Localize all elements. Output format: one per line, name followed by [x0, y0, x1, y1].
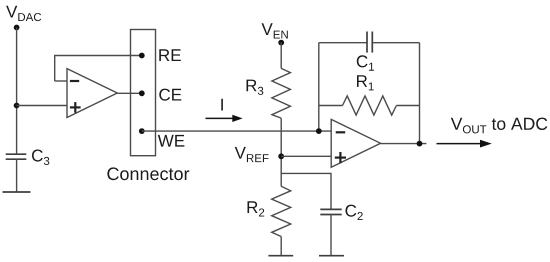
- wire feedback top right of C1: [372, 42, 419, 44]
- junction at op-amp U1 plus input: [14, 103, 20, 109]
- ground (R2): [268, 255, 293, 257]
- connector J1 box: [131, 30, 156, 156]
- wire WE to U2 minus input: [142, 130, 331, 132]
- pin RE label: [159, 49, 181, 61]
- wire U1 output to CE pin: [117, 92, 142, 94]
- wire VEN to R3: [280, 43, 282, 69]
- resistor R1 label: [357, 75, 374, 90]
- node VREF junction dot: [278, 153, 284, 159]
- resistor R2: [272, 186, 291, 236]
- ground (C3): [3, 191, 31, 193]
- wire U2 output: [381, 143, 427, 145]
- wire R2 to ground: [280, 237, 282, 256]
- wire U1 minus input: [55, 80, 67, 82]
- resistor R1: [319, 96, 420, 115]
- resistor R3 label: [247, 80, 264, 95]
- capacitor C2: [320, 209, 341, 214]
- capacitor C3: [6, 154, 27, 159]
- node VEN terminal dot: [278, 40, 284, 46]
- current I label: [221, 99, 223, 111]
- capacitor C1 label: [357, 55, 374, 70]
- wire feedback top left of C1: [319, 42, 367, 44]
- capacitor C3 label: [32, 150, 49, 166]
- node VDAC label: [6, 6, 41, 21]
- junction dot at U2 minus input: [316, 128, 322, 134]
- op-amp U2: [331, 119, 380, 167]
- capacitor C2 label: [346, 205, 363, 220]
- current I arrow: [206, 115, 243, 122]
- node VEN label: [262, 23, 288, 38]
- junction dot at U2 output: [417, 141, 423, 147]
- pin RE dot: [139, 53, 145, 59]
- wire to U1 plus input: [17, 105, 67, 107]
- wire VDAC vertical: [16, 28, 18, 155]
- op-amp U1: [67, 69, 117, 118]
- wire feedback right vertical: [419, 43, 421, 144]
- pin WE dot: [139, 128, 145, 134]
- capacitor C1: [367, 32, 372, 53]
- pin WE label: [158, 135, 185, 147]
- output arrow: [437, 140, 492, 148]
- resistor R2 label: [248, 201, 265, 216]
- wire R3 down through WE net to R2: [280, 118, 282, 186]
- wire C2 to ground: [330, 215, 332, 256]
- wire feedback left vertical: [318, 43, 320, 131]
- connector label: [107, 167, 189, 180]
- resistor R3: [272, 68, 291, 118]
- ground (C2): [319, 255, 344, 257]
- pin CE label: [159, 89, 181, 101]
- node VDAC terminal dot: [14, 25, 20, 31]
- wire branch to C2: [281, 173, 331, 209]
- wire C3 to ground: [16, 159, 18, 192]
- node VREF label: [235, 147, 269, 162]
- pin CE dot: [139, 90, 145, 96]
- node VOUT label: [451, 118, 548, 134]
- wire U1 feedback to RE pin: [55, 56, 142, 82]
- wire VREF to U2 plus input: [281, 155, 331, 157]
